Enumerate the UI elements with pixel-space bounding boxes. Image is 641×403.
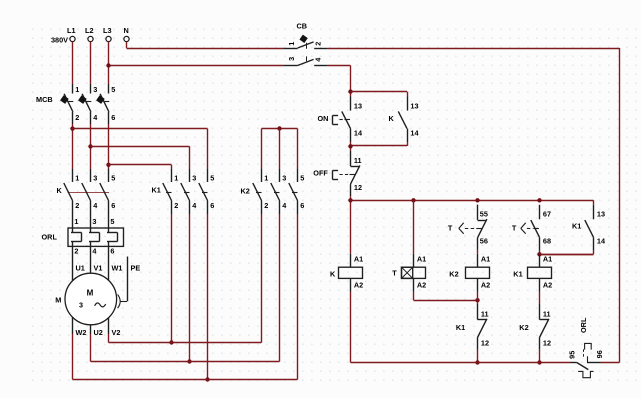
svg-text:6: 6 [110, 247, 114, 256]
svg-text:2: 2 [314, 42, 323, 46]
svg-text:96: 96 [595, 350, 604, 358]
svg-text:11: 11 [354, 156, 362, 165]
svg-text:3: 3 [93, 85, 97, 94]
svg-text:K: K [57, 186, 63, 195]
svg-text:12: 12 [354, 183, 362, 192]
svg-text:K: K [389, 114, 395, 123]
svg-text:A2: A2 [543, 281, 552, 290]
svg-text:12: 12 [481, 338, 489, 347]
svg-text:1: 1 [75, 174, 79, 183]
svg-text:1: 1 [287, 42, 296, 46]
svg-text:A2: A2 [481, 281, 490, 290]
svg-text:N: N [124, 26, 129, 35]
svg-text:5: 5 [110, 217, 114, 226]
svg-text:2: 2 [74, 247, 78, 256]
svg-text:1: 1 [264, 174, 268, 183]
svg-text:V1: V1 [94, 263, 103, 272]
svg-text:12: 12 [543, 338, 551, 347]
svg-text:56: 56 [480, 237, 488, 246]
svg-text:6: 6 [300, 201, 304, 210]
svg-text:W1: W1 [112, 263, 123, 272]
svg-text:1: 1 [174, 174, 178, 183]
svg-text:CB: CB [297, 21, 308, 30]
svg-text:380V: 380V [51, 35, 68, 44]
svg-text:5: 5 [111, 174, 115, 183]
svg-text:5: 5 [300, 174, 304, 183]
svg-text:K1: K1 [456, 323, 465, 332]
svg-text:T: T [448, 224, 453, 233]
svg-text:2: 2 [75, 113, 79, 122]
svg-text:M: M [87, 288, 94, 297]
svg-text:U2: U2 [94, 328, 103, 337]
svg-text:14: 14 [354, 129, 363, 138]
svg-text:3: 3 [192, 174, 196, 183]
svg-text:2: 2 [75, 201, 79, 210]
svg-text:6: 6 [210, 201, 214, 210]
svg-text:14: 14 [410, 129, 419, 138]
svg-text:A1: A1 [354, 255, 363, 264]
svg-text:67: 67 [543, 209, 551, 218]
svg-text:2: 2 [174, 201, 178, 210]
svg-text:U1: U1 [76, 263, 85, 272]
svg-text:T: T [392, 268, 397, 277]
svg-text:3: 3 [93, 174, 97, 183]
svg-text:W2: W2 [76, 328, 87, 337]
svg-text:3: 3 [287, 57, 296, 61]
svg-text:55: 55 [480, 209, 488, 218]
svg-text:3: 3 [282, 174, 286, 183]
svg-text:95: 95 [568, 351, 577, 359]
svg-text:A1: A1 [543, 255, 552, 264]
svg-text:2: 2 [264, 201, 268, 210]
svg-text:5: 5 [210, 174, 214, 183]
svg-text:6: 6 [111, 113, 115, 122]
svg-text:V2: V2 [112, 328, 121, 337]
svg-text:A1: A1 [417, 255, 426, 264]
svg-text:K: K [330, 269, 336, 278]
svg-text:MCB: MCB [36, 95, 53, 104]
svg-text:M: M [55, 296, 61, 305]
svg-text:11: 11 [543, 309, 551, 318]
svg-text:PE: PE [131, 263, 141, 272]
svg-text:L1: L1 [67, 26, 76, 35]
svg-text:OFF: OFF [313, 168, 328, 177]
svg-text:K1: K1 [572, 221, 581, 230]
svg-text:13: 13 [410, 101, 418, 110]
svg-text:5: 5 [111, 85, 115, 94]
svg-text:ON: ON [318, 114, 329, 123]
svg-text:1: 1 [75, 85, 79, 94]
svg-text:ORL: ORL [42, 233, 58, 242]
svg-text:13: 13 [354, 101, 362, 110]
svg-text:11: 11 [481, 309, 489, 318]
svg-text:1: 1 [74, 217, 78, 226]
svg-text:3: 3 [79, 300, 83, 309]
svg-text:3: 3 [92, 217, 96, 226]
svg-text:A2: A2 [417, 281, 426, 290]
svg-text:K2: K2 [519, 323, 528, 332]
svg-text:A2: A2 [354, 281, 363, 290]
svg-text:L2: L2 [85, 26, 94, 35]
svg-text:K1: K1 [513, 269, 522, 278]
svg-text:K2: K2 [449, 269, 458, 278]
svg-text:L3: L3 [103, 26, 112, 35]
svg-text:K1: K1 [152, 186, 161, 195]
svg-text:K2: K2 [241, 187, 250, 196]
svg-text:T: T [512, 224, 517, 233]
svg-text:ORL: ORL [579, 317, 588, 333]
svg-text:13: 13 [597, 209, 605, 218]
svg-text:6: 6 [111, 201, 115, 210]
svg-text:14: 14 [597, 237, 606, 246]
svg-text:A1: A1 [481, 255, 490, 264]
svg-text:68: 68 [543, 237, 551, 246]
